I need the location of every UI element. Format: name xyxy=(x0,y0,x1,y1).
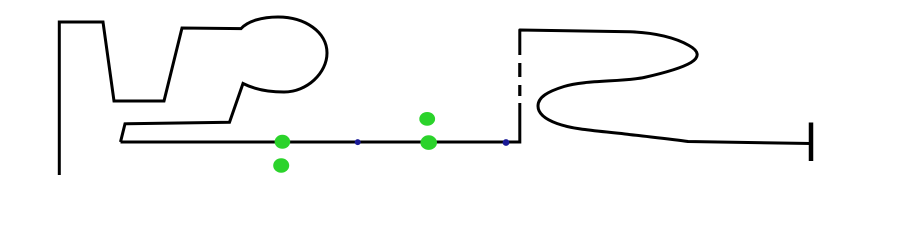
wire: left zigzag stroke with loop xyxy=(59,17,327,175)
node: green dot pair A (on line and below) xyxy=(275,135,291,149)
node: green dot pair B (above line and on line) xyxy=(419,112,435,126)
node: small blue dot 1 xyxy=(355,139,361,145)
wire: long horizontal baseline xyxy=(121,103,520,142)
wire: right shape top bar and S-curve xyxy=(520,30,811,144)
end bar terminal xyxy=(809,123,814,162)
wire: dashed vertical segment dashes xyxy=(518,85,521,96)
node: small blue dot 2 xyxy=(503,139,510,146)
